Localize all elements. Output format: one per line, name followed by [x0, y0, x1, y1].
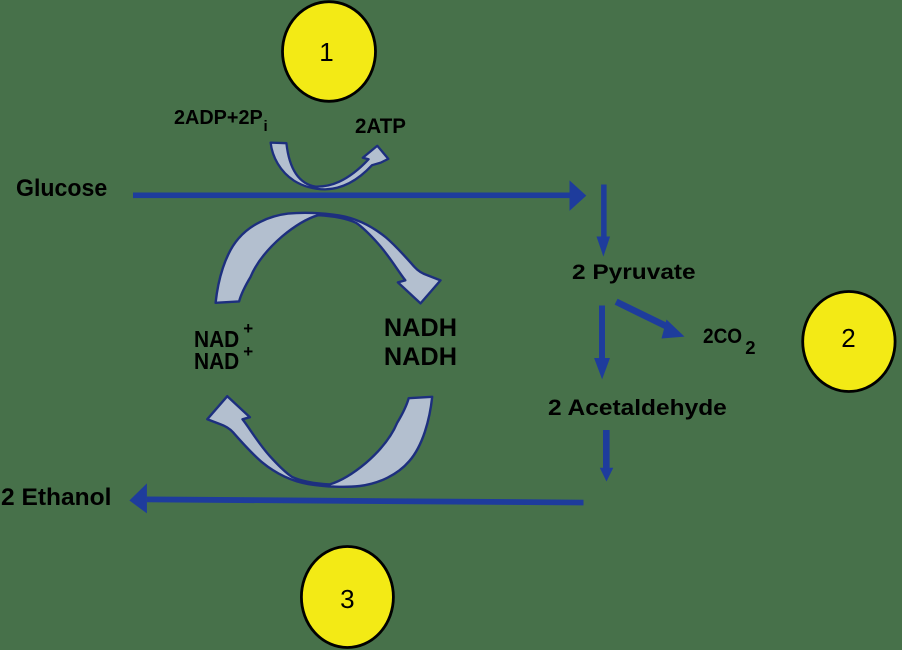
NADH cycle bottom arc arrow	[207, 396, 432, 487]
step circle 3	[301, 547, 393, 648]
arrow Pyruvate down to Acetaldehyde	[594, 306, 610, 380]
NADH cycle top arc arrow	[216, 213, 441, 304]
arrow Acetaldehyde to Ethanol (leftward)	[129, 483, 583, 513]
label 2 Pyruvate	[572, 261, 696, 283]
step digit 2	[841, 325, 855, 351]
step circle 2	[803, 292, 895, 392]
label NADH line1	[384, 316, 457, 341]
step digit 3	[340, 586, 354, 612]
arrow Acetaldehyde down to Ethanol line	[600, 430, 614, 482]
label 2 Ethanol	[1, 486, 111, 510]
label 2ATP	[355, 116, 406, 138]
diagonal arrow to CO2	[616, 302, 684, 339]
label NAD+ line1	[194, 328, 239, 351]
label 2CO2	[703, 326, 742, 347]
glycolysis arrow Glucose to Pyruvate	[133, 180, 586, 211]
label 2 Acetaldehyde	[548, 397, 727, 419]
label Glucose	[16, 177, 107, 201]
ADP to ATP curved swoosh arrow	[271, 143, 389, 190]
step circle 1	[283, 2, 376, 102]
label NADH line2	[384, 345, 457, 370]
arrow down to 2 Pyruvate	[597, 185, 611, 257]
step digit 1	[319, 39, 333, 65]
label NAD+ line2	[194, 350, 239, 373]
label 2ADP+2Pi	[174, 108, 263, 128]
